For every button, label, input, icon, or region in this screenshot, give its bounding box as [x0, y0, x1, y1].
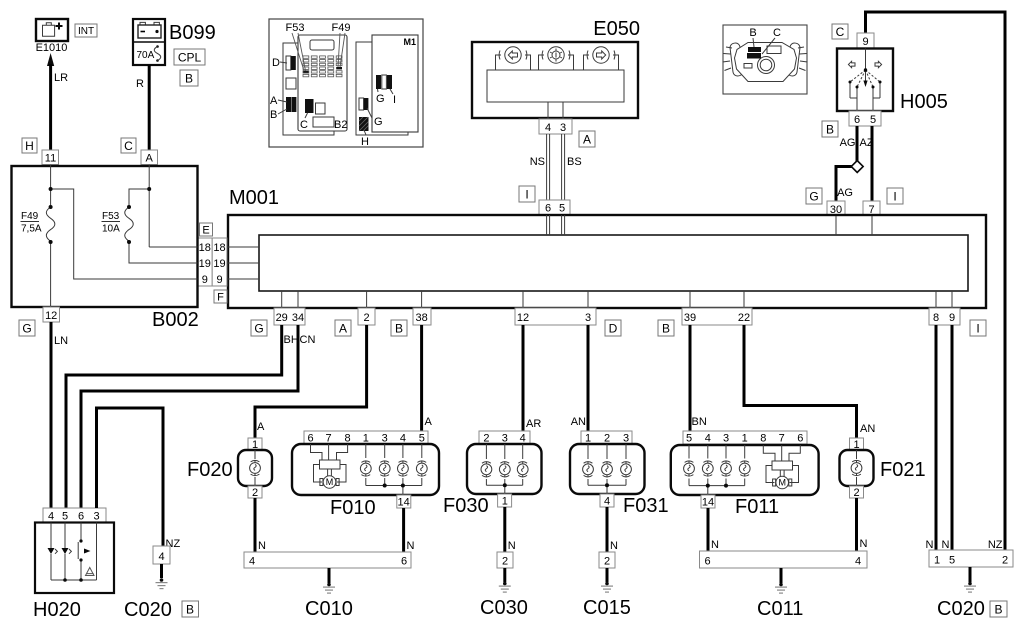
- svg-text:7: 7: [326, 433, 332, 445]
- svg-text:A: A: [270, 95, 278, 107]
- pins 12 3 of M001: [515, 308, 596, 325]
- svg-text:3: 3: [723, 433, 729, 445]
- svg-text:4: 4: [158, 551, 164, 563]
- svg-text:CN: CN: [300, 334, 316, 346]
- svg-text:4: 4: [855, 556, 861, 568]
- svg-text:N: N: [711, 539, 719, 551]
- side indicator F030: [443, 431, 542, 517]
- label B: [990, 601, 1007, 617]
- svg-text:7,5A: 7,5A: [21, 224, 42, 235]
- label C: [832, 24, 848, 39]
- svg-text:NZ: NZ: [988, 539, 1003, 551]
- battery B099: [133, 19, 216, 65]
- label B: [391, 320, 407, 336]
- svg-text:12: 12: [517, 312, 529, 324]
- svg-text:6: 6: [545, 203, 551, 215]
- svg-text:1: 1: [363, 433, 369, 445]
- svg-text:2: 2: [502, 556, 508, 568]
- label INT: [75, 24, 97, 37]
- svg-text:F49: F49: [21, 211, 39, 222]
- wire NS: [530, 134, 550, 200]
- wire N from F011 pin 14 to C011 pin 6: [708, 508, 719, 551]
- svg-text:CPL: CPL: [178, 51, 202, 65]
- label G: [19, 320, 35, 336]
- svg-text:2: 2: [252, 487, 258, 499]
- svg-text:22: 22: [738, 312, 750, 324]
- svg-text:F53: F53: [102, 211, 120, 222]
- svg-text:F031: F031: [623, 495, 669, 517]
- ground C011: [757, 568, 803, 620]
- svg-text:G: G: [809, 190, 818, 204]
- label E: [200, 223, 213, 237]
- svg-text:AG: AG: [837, 187, 853, 199]
- svg-text:A: A: [425, 416, 433, 428]
- svg-text:1: 1: [585, 433, 591, 445]
- svg-text:N: N: [407, 540, 415, 552]
- wire AN from M001 pin 3 to F031 pin 1: [571, 325, 588, 431]
- svg-text:AN: AN: [571, 416, 586, 428]
- svg-text:G: G: [254, 322, 263, 336]
- pins 4 3 of E050: [539, 119, 572, 134]
- label G: [806, 188, 822, 204]
- svg-text:B: B: [185, 72, 193, 86]
- svg-text:70A: 70A: [137, 50, 155, 61]
- pin 38 of M001: [413, 308, 431, 325]
- svg-text:F020: F020: [187, 459, 233, 481]
- svg-text:F49: F49: [332, 22, 351, 34]
- wire LN from B002 pin 12 to H020 pin 4: [51, 322, 68, 508]
- svg-text:12: 12: [45, 310, 57, 322]
- svg-text:C030: C030: [480, 597, 528, 619]
- pin 11 of B002: [42, 150, 59, 165]
- wire CN from M001 pin 34 to H020 pin 6: [81, 325, 315, 508]
- svg-text:5: 5: [949, 555, 955, 567]
- wire BH from M001 pin 29 to H020 pin 5: [66, 325, 299, 508]
- connector C015: [599, 552, 615, 568]
- svg-text:B: B: [826, 123, 834, 137]
- svg-text:N: N: [926, 539, 934, 551]
- wire AN from M001 pin 22 to F021 pin 1: [744, 325, 875, 438]
- svg-text:4: 4: [705, 433, 711, 445]
- svg-text:I: I: [976, 322, 979, 336]
- pin A of B002: [141, 150, 158, 165]
- svg-text:C: C: [773, 27, 781, 39]
- wire BS: [562, 134, 582, 200]
- wire AZ from H005 pin 5 to M001 pin 7: [860, 126, 874, 201]
- label B: [182, 601, 199, 617]
- svg-text:B: B: [395, 322, 403, 336]
- svg-text:F030: F030: [443, 495, 489, 517]
- label A: [335, 320, 351, 336]
- pins 6 5 of H005: [849, 111, 881, 126]
- svg-text:B: B: [186, 603, 194, 617]
- pins 29 34 of M001: [274, 308, 305, 325]
- connector C020 right: [929, 550, 1013, 567]
- svg-text:H020: H020: [33, 599, 81, 621]
- svg-text:18: 18: [213, 242, 225, 254]
- fusebox B002: [12, 165, 199, 332]
- svg-text:19: 19: [199, 258, 211, 270]
- hazard switch H020: [33, 508, 114, 621]
- front lamp cluster F010: [292, 431, 439, 519]
- svg-text:A: A: [583, 133, 591, 147]
- svg-text:H: H: [361, 136, 369, 148]
- connector C010: [244, 552, 411, 568]
- wire NZ from H020 pin 3 to C020 pin 4: [97, 408, 181, 550]
- label I: [887, 188, 903, 204]
- svg-text:3: 3: [585, 312, 591, 324]
- svg-text:G: G: [374, 116, 383, 128]
- svg-text:C020: C020: [124, 599, 172, 621]
- wire N from F020 pin 2 to C010 pin 4: [255, 498, 266, 552]
- svg-text:B: B: [662, 322, 670, 336]
- label NZ on right feed wire: [988, 539, 1003, 551]
- label G: [251, 320, 267, 336]
- svg-text:D: D: [609, 322, 618, 336]
- side marker lamp F020: [187, 438, 272, 499]
- pin 4 of C020: [153, 546, 170, 564]
- svg-text:9: 9: [949, 312, 955, 324]
- svg-text:D: D: [272, 57, 280, 69]
- label B: [180, 70, 198, 86]
- svg-text:5: 5: [686, 433, 692, 445]
- svg-text:E050: E050: [593, 18, 640, 40]
- svg-text:29: 29: [276, 312, 288, 324]
- ground C010: [305, 568, 353, 620]
- svg-text:M1: M1: [403, 37, 416, 47]
- svg-text:5: 5: [419, 433, 425, 445]
- svg-text:8: 8: [345, 433, 351, 445]
- svg-text:I: I: [893, 190, 896, 204]
- svg-text:BN: BN: [692, 416, 707, 428]
- svg-text:B: B: [749, 27, 756, 39]
- wire A from M001 pin 2 to F020 pin 1: [255, 325, 367, 438]
- label C: [121, 138, 136, 153]
- svg-text:4: 4: [545, 122, 551, 134]
- svg-text:14: 14: [702, 497, 714, 509]
- svg-text:5: 5: [559, 203, 565, 215]
- svg-text:9: 9: [862, 36, 868, 48]
- side marker lamp F021: [840, 438, 926, 499]
- svg-text:F021: F021: [880, 459, 926, 481]
- svg-text:E1010: E1010: [36, 42, 68, 54]
- svg-text:INT: INT: [78, 26, 94, 37]
- ground C020 right: [937, 567, 985, 620]
- svg-text:C: C: [836, 25, 845, 39]
- svg-text:6: 6: [854, 114, 860, 126]
- svg-text:A: A: [257, 421, 265, 433]
- rear lamp cluster F011: [671, 431, 819, 518]
- ground point E1010: [36, 19, 68, 54]
- svg-text:3: 3: [382, 433, 388, 445]
- svg-text:NS: NS: [530, 156, 545, 168]
- svg-text:3: 3: [560, 122, 566, 134]
- svg-text:H: H: [25, 139, 34, 153]
- svg-text:C011: C011: [757, 598, 803, 620]
- svg-text:A: A: [339, 322, 347, 336]
- svg-text:2: 2: [604, 433, 610, 445]
- svg-text:B: B: [994, 603, 1002, 617]
- svg-text:H005: H005: [900, 91, 948, 113]
- svg-text:9: 9: [216, 274, 222, 286]
- svg-text:10A: 10A: [102, 224, 120, 235]
- svg-text:C020: C020: [937, 598, 985, 620]
- indicator cluster E050: [472, 18, 640, 119]
- svg-text:C015: C015: [583, 597, 631, 619]
- svg-text:14: 14: [397, 497, 409, 509]
- svg-text:6: 6: [78, 511, 84, 523]
- pin 9 of H005: [857, 33, 874, 49]
- pin 30 of M001: [827, 201, 845, 216]
- svg-text:2: 2: [364, 312, 370, 324]
- svg-text:3: 3: [93, 511, 99, 523]
- svg-text:2: 2: [483, 433, 489, 445]
- svg-text:7: 7: [779, 433, 785, 445]
- svg-text:M001: M001: [229, 187, 279, 209]
- wire N from F030 pin 1 to C030: [505, 507, 516, 552]
- svg-text:2: 2: [853, 487, 859, 499]
- svg-text:8: 8: [760, 433, 766, 445]
- svg-text:I: I: [393, 94, 396, 106]
- svg-text:6: 6: [704, 556, 710, 568]
- svg-text:4: 4: [400, 433, 406, 445]
- ground C020 left: [124, 564, 172, 621]
- svg-text:F53: F53: [286, 22, 305, 34]
- steering column inset: [723, 25, 808, 94]
- label H: [22, 138, 37, 153]
- label B: [822, 121, 838, 137]
- svg-text:R: R: [136, 78, 144, 90]
- svg-text:6: 6: [797, 433, 803, 445]
- svg-text:N: N: [610, 540, 618, 552]
- wire AR from M001 pin 12 to F030 pin 4: [523, 325, 541, 431]
- svg-text:G: G: [22, 322, 31, 336]
- svg-text:3: 3: [502, 433, 508, 445]
- wire N from M001 pin 9 to C020 pin 5: [942, 325, 952, 551]
- wire LR with arrow to E1010: [47, 53, 68, 150]
- svg-text:C010: C010: [305, 598, 353, 620]
- svg-text:E: E: [202, 225, 209, 237]
- wire from H005 pin 9 to right edge (NZ feed): [866, 12, 1006, 550]
- svg-text:3: 3: [623, 433, 629, 445]
- svg-text:1: 1: [502, 496, 508, 508]
- pin 7 of M001: [863, 201, 880, 216]
- label A: [579, 131, 595, 147]
- wire N from F031 pin 4 to C015: [607, 507, 618, 552]
- ground C030: [480, 568, 528, 619]
- svg-text:8: 8: [933, 312, 939, 324]
- ground C015: [583, 568, 631, 619]
- svg-text:2: 2: [1002, 555, 1008, 567]
- svg-text:4: 4: [48, 511, 54, 523]
- svg-text:34: 34: [292, 312, 304, 324]
- svg-text:LR: LR: [54, 72, 68, 84]
- label I: [970, 320, 986, 336]
- connector rows 18/19/9 between B002 and M001: [198, 238, 260, 286]
- svg-text:1: 1: [742, 433, 748, 445]
- label I: [519, 186, 535, 202]
- svg-text:F010: F010: [330, 497, 376, 519]
- svg-text:18: 18: [199, 242, 211, 254]
- svg-text:N: N: [508, 540, 516, 552]
- wire A from M001 pin 38 to F010 pin 5: [422, 325, 433, 431]
- splice diamond: [851, 161, 863, 173]
- svg-text:19: 19: [213, 258, 225, 270]
- connector C030: [497, 552, 513, 568]
- svg-text:AR: AR: [526, 418, 541, 430]
- svg-text:N: N: [860, 538, 868, 550]
- pin 12 of B002: [43, 307, 60, 322]
- svg-text:F011: F011: [735, 496, 779, 518]
- label F: [214, 290, 227, 304]
- connector C011: [700, 551, 868, 568]
- svg-text:N: N: [942, 539, 950, 551]
- wire BN from M001 pin 39 to F011 pin 5: [690, 325, 707, 431]
- svg-text:2: 2: [604, 556, 610, 568]
- svg-text:39: 39: [684, 312, 696, 324]
- side indicator F031: [570, 431, 669, 517]
- wire R from B099 to B002 pin A: [136, 65, 149, 150]
- svg-text:C: C: [300, 119, 308, 131]
- svg-text:BS: BS: [567, 156, 582, 168]
- wire N from M001 pin 8 to C020 pin 1: [926, 325, 936, 551]
- svg-text:F: F: [217, 292, 224, 304]
- svg-text:1: 1: [934, 555, 940, 567]
- svg-text:I: I: [525, 188, 528, 202]
- pins 39 22 of M001: [682, 308, 752, 325]
- svg-text:38: 38: [415, 312, 427, 324]
- svg-text:9: 9: [202, 274, 208, 286]
- wire N from F021 pin 2 to C011 pin 4: [857, 498, 868, 551]
- svg-text:G: G: [376, 93, 385, 105]
- svg-text:A: A: [146, 153, 154, 165]
- wire N from F010 pin 14 to C010 pin 6: [404, 508, 415, 552]
- label B: [658, 320, 674, 336]
- wire AG from H005 pin 6 to splice: [836, 126, 857, 201]
- pins 6 5 of M001 top: [539, 200, 570, 215]
- label CPL: [174, 49, 205, 65]
- svg-text:4: 4: [604, 496, 610, 508]
- fusebox location inset B2/M1: [269, 19, 423, 148]
- svg-text:C: C: [124, 139, 133, 153]
- svg-text:4: 4: [520, 433, 526, 445]
- pin 2 of M001: [358, 308, 375, 325]
- svg-text:B099: B099: [169, 22, 216, 44]
- svg-text:AG: AG: [840, 137, 856, 149]
- label D: [605, 320, 621, 336]
- svg-text:LN: LN: [54, 335, 68, 347]
- svg-text:6: 6: [401, 556, 407, 568]
- svg-text:5: 5: [870, 114, 876, 126]
- body computer M001: [228, 187, 986, 308]
- svg-text:11: 11: [45, 153, 56, 165]
- pins 8 9 of M001: [929, 308, 960, 325]
- svg-text:4: 4: [249, 556, 255, 568]
- svg-text:N: N: [258, 540, 266, 552]
- svg-text:B: B: [270, 109, 277, 121]
- svg-text:6: 6: [307, 433, 313, 445]
- svg-text:AN: AN: [860, 423, 875, 435]
- svg-text:B002: B002: [152, 309, 199, 331]
- turn-signal switch H005: [837, 49, 948, 114]
- svg-text:5: 5: [62, 511, 68, 523]
- svg-text:B2: B2: [334, 119, 347, 131]
